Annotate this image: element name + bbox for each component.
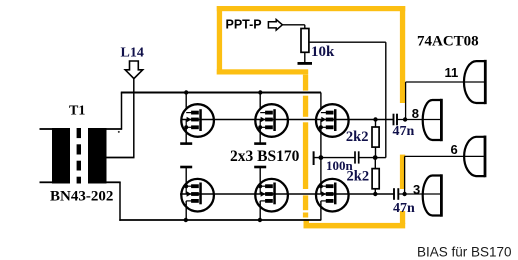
gate U1B output (pin 6) [464, 137, 485, 176]
capacitor C1 47n plates (top) [393, 114, 395, 126]
T1 secondary top lead [40, 128, 53, 130]
svg-text:8: 8 [412, 106, 419, 121]
source terminal bar Q4 [180, 166, 192, 169]
wire R1 to ground bar [304, 52, 306, 62]
svg-text:100n: 100n [326, 158, 354, 173]
wire Q6 drain to bottom bus [320, 201, 322, 220]
ground bar under R1 [298, 62, 313, 65]
svg-text:T1: T1 [69, 104, 85, 119]
svg-text:L14: L14 [121, 46, 144, 61]
wire to gate pin 11 [405, 82, 407, 120]
transistor Q1 BS170 (top row) [181, 104, 214, 137]
wire 100n line left [314, 157, 355, 159]
wire C2 to gate pin 3 [398, 193, 440, 195]
wire top gate rail [181, 119, 393, 121]
wire riser bottom terminal to bottom bus [119, 182, 121, 221]
resistor R2 2k2 (top) [372, 127, 379, 147]
wire L14 to center tap [133, 79, 135, 158]
svg-text:6: 6 [451, 142, 458, 157]
node junction bus-Q1 drain [184, 90, 188, 94]
svg-text:BIAS für BS170: BIAS für BS170 [417, 245, 512, 260]
T1 left winding bar [52, 128, 70, 184]
gate U1D output (pin 11) [464, 61, 485, 103]
wire Q4 drain to bottom bus [185, 201, 187, 220]
wire Q2 source [259, 127, 261, 144]
node junction Q3/Q6 source on 100n line [319, 155, 324, 160]
source terminal bar Q1 [180, 142, 192, 145]
node junction top rail / R2 [373, 117, 377, 121]
capacitor C2 47n plates (bottom) [393, 188, 395, 200]
wire bottom drain bus [119, 219, 321, 221]
highlight top bar (yellow) [217, 6, 405, 11]
wire Q1 drain to bus [185, 93, 187, 113]
transistor Q2 BS170 (top row) [255, 104, 288, 137]
node junction pin8/pin11 [403, 117, 407, 121]
wire top drain bus [121, 92, 321, 94]
wire T1 primary bottom terminal [106, 181, 121, 183]
svg-text:3: 3 [413, 182, 420, 197]
resistor R1 10k [301, 29, 309, 53]
T1 winding polarity dot [118, 131, 120, 133]
svg-text:47n: 47n [393, 124, 415, 139]
wire Q2 drain to bus [259, 93, 261, 113]
highlight PPT-P box bottom bar (yellow) [217, 69, 308, 74]
wire T1 primary center tap [106, 157, 135, 159]
resistor R3 2k2 (bottom) [372, 169, 379, 189]
wire Q5 drain to bottom bus [259, 201, 261, 220]
highlight right vertical (yellow) [400, 6, 405, 103]
svg-text:2x3 BS170: 2x3 BS170 [230, 148, 300, 165]
node junction bottom rail / R3 [373, 192, 377, 196]
connector arrow PPT-P [268, 20, 282, 31]
wire riser top terminal to drain bus [121, 93, 123, 129]
node junction bottom bus-Q4 drain [184, 218, 188, 222]
T1 core dashed line [77, 128, 81, 138]
node junction bottom bus-Q5 drain [258, 218, 262, 222]
node junction bias rail [373, 155, 378, 160]
wire T1 primary top terminal [106, 128, 122, 130]
wire 100n line right [359, 157, 376, 159]
transistor Q6 BS170 (bottom row) [316, 179, 349, 212]
wire Q1 source [185, 127, 187, 144]
wire Q3 drain to bus [320, 93, 322, 113]
transistor Q5 BS170 (bottom row) [255, 179, 288, 212]
wire Q5 source [259, 166, 261, 186]
svg-text:PPT-P: PPT-P [226, 18, 262, 32]
transistor Q3 BS170 (top row) [316, 104, 349, 137]
svg-text:10k: 10k [311, 44, 335, 60]
wire C1 to gate pin 8 [397, 119, 440, 121]
wire to gate pin 6 [404, 156, 406, 194]
wire bottom gate rail [180, 193, 394, 195]
transistor Q4 BS170 (bottom row) [181, 179, 214, 212]
capacitor C3 100n plates [354, 151, 356, 163]
connector arrow L14 [125, 61, 143, 79]
gate U1A output (pin 3) [423, 176, 442, 216]
highlight middle dashed vertical (yellow) [303, 75, 308, 91]
source terminal bar Q2 [254, 142, 266, 145]
T1 secondary bottom lead [40, 181, 53, 183]
svg-text:47n: 47n [393, 201, 415, 216]
node junction pin3/pin6 [402, 192, 406, 196]
svg-text:2k2: 2k2 [346, 129, 369, 145]
T1 right winding bar [88, 128, 107, 184]
svg-text:11: 11 [445, 65, 459, 80]
highlight left vertical (yellow) [217, 6, 222, 75]
node junction bus-Q2 drain [258, 90, 262, 94]
gate U1B output (pin 8) [423, 100, 442, 140]
terminal bar 100n line [313, 151, 315, 165]
svg-text:BN43-202: BN43-202 [50, 189, 113, 205]
source terminal bar Q5 [254, 166, 266, 169]
svg-text:74ACT08: 74ACT08 [417, 34, 479, 50]
wire Q4 source [185, 166, 187, 186]
wire Q3/Q6 source tie [320, 127, 322, 186]
wire PPT-P to R1 [282, 24, 304, 26]
wire bias feed R1 to rail node [309, 41, 386, 43]
highlight bottom bar (yellow) [304, 223, 406, 229]
